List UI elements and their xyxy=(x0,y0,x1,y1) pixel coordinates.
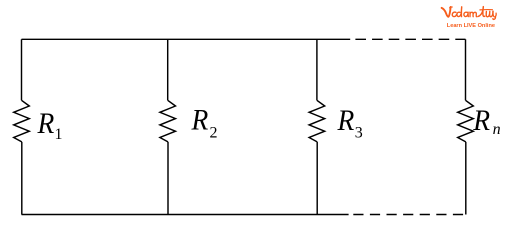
resistor R2 xyxy=(160,100,176,142)
wire bottom bus dashed xyxy=(353,214,463,216)
svg-text:3: 3 xyxy=(355,125,363,142)
svg-text:R: R xyxy=(472,104,490,137)
wire branch n top lead xyxy=(465,39,467,100)
svg-text:1: 1 xyxy=(55,126,63,143)
wire branch2 bottom lead xyxy=(167,142,169,215)
svg-text:Learn LIVE Online: Learn LIVE Online xyxy=(447,23,495,29)
wire bottom bus solid xyxy=(22,214,349,216)
wire branch n bottom lead xyxy=(465,142,467,215)
wire branch1 top lead xyxy=(21,39,23,100)
wire branch1 bottom lead xyxy=(21,142,23,215)
resistor R3 xyxy=(309,100,325,142)
Vedantu logo tagline xyxy=(447,23,495,29)
wire branch3 top lead xyxy=(316,39,318,100)
resistor R1 xyxy=(14,100,30,142)
svg-text:n: n xyxy=(493,121,501,138)
resistor Rn xyxy=(458,100,474,142)
svg-text:R: R xyxy=(37,107,55,140)
wire top bus solid xyxy=(22,38,351,40)
svg-text:R: R xyxy=(337,104,355,137)
wire top bus dashed xyxy=(355,38,465,40)
wire branch2 top lead xyxy=(167,39,169,100)
Vedantu logo wordmark xyxy=(442,7,497,20)
svg-text:R: R xyxy=(191,104,209,137)
wire branch3 bottom lead xyxy=(316,142,318,215)
svg-text:2: 2 xyxy=(210,124,218,141)
